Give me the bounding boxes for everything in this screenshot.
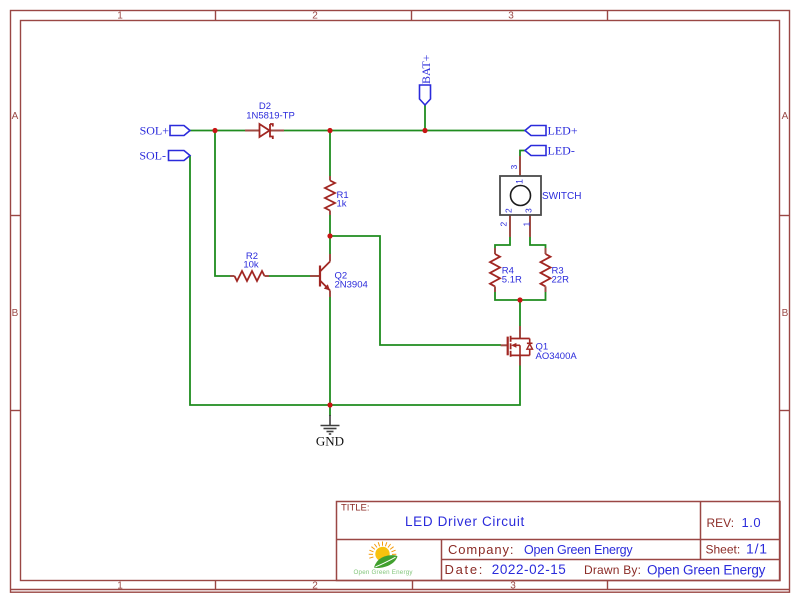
resistor R4 xyxy=(490,248,500,292)
label R4 xyxy=(502,266,522,286)
svg-text:3: 3 xyxy=(509,165,519,170)
svg-text:Open Green Energy: Open Green Energy xyxy=(524,543,633,557)
svg-text:2: 2 xyxy=(312,581,318,592)
svg-text:SWITCH: SWITCH xyxy=(542,191,581,202)
svg-text:GND: GND xyxy=(316,434,344,449)
svg-text:22R: 22R xyxy=(552,275,570,286)
svg-text:LED Driver Circuit: LED Driver Circuit xyxy=(405,514,525,529)
svg-text:1: 1 xyxy=(522,222,532,227)
svg-text:1.0: 1.0 xyxy=(742,515,762,530)
netflag LED+ xyxy=(525,124,578,138)
resistor R2 xyxy=(230,271,269,281)
resistor R3 xyxy=(541,248,551,292)
wire R1 to Q2 collector xyxy=(329,215,331,254)
svg-text:10k: 10k xyxy=(243,260,259,271)
ground xyxy=(321,415,340,434)
logo Open Green Energy xyxy=(354,542,414,576)
wire SOL+ to D2 xyxy=(190,130,245,132)
wire switch pin2 to R4 xyxy=(495,237,510,248)
resistor R1 xyxy=(325,176,335,215)
svg-text:LED-: LED- xyxy=(548,144,575,158)
svg-text:2022-02-15: 2022-02-15 xyxy=(492,562,567,577)
wire node520 to Q1 drain xyxy=(519,300,521,326)
svg-text:1N5819-TP: 1N5819-TP xyxy=(246,111,295,122)
netflag LED- xyxy=(525,144,575,158)
wire node236 to Q1 gate xyxy=(330,236,501,345)
svg-text:1/1: 1/1 xyxy=(746,541,768,557)
svg-text:1: 1 xyxy=(117,581,123,592)
wire node215 down to R2 xyxy=(215,131,230,277)
wire Q2 emitter to ground rail xyxy=(329,297,331,416)
label SWITCH xyxy=(499,165,582,227)
switch S1 xyxy=(500,156,541,237)
title texts xyxy=(341,503,768,578)
label Q2 xyxy=(335,271,368,291)
transistor Q2 xyxy=(310,254,330,297)
svg-text:A: A xyxy=(12,111,19,122)
svg-text:AO3400A: AO3400A xyxy=(536,351,578,362)
svg-text:Sheet:: Sheet: xyxy=(706,543,741,557)
netflag SOL+ xyxy=(140,124,190,138)
node D junction R1-gate xyxy=(327,233,332,238)
transistor Q1 xyxy=(501,326,533,366)
node F junction ground rail xyxy=(327,402,332,407)
svg-text:2: 2 xyxy=(312,11,318,22)
svg-text:2: 2 xyxy=(504,208,514,213)
netflag BAT+ xyxy=(419,54,433,105)
svg-text:2: 2 xyxy=(499,222,509,227)
svg-text:TITLE:: TITLE: xyxy=(341,503,370,514)
diode D2 xyxy=(245,124,284,139)
netflag SOL- xyxy=(139,149,190,163)
svg-text:2N3904: 2N3904 xyxy=(335,280,368,291)
svg-text:Open Green Energy: Open Green Energy xyxy=(354,569,414,576)
label Q1 xyxy=(536,341,578,362)
title block xyxy=(337,502,781,581)
node B junction D2-R1 xyxy=(327,128,332,133)
wire switch pin1 to R3 xyxy=(530,237,546,248)
svg-text:1: 1 xyxy=(117,11,123,22)
svg-text:A: A xyxy=(782,111,789,122)
svg-text:Company:: Company: xyxy=(448,542,514,557)
label R2 xyxy=(243,251,259,271)
svg-text:SOL-: SOL- xyxy=(139,149,166,163)
wire LED- to switch xyxy=(520,151,525,157)
wire R4 R3 to node520 xyxy=(495,291,546,300)
wire R2 to Q2 base xyxy=(269,275,310,277)
svg-text:3: 3 xyxy=(524,208,534,213)
svg-text:Date:: Date: xyxy=(445,562,485,577)
label R1 xyxy=(337,190,349,210)
node E junction R4-R3 xyxy=(517,297,522,302)
svg-text:3: 3 xyxy=(508,11,514,22)
svg-text:B: B xyxy=(12,308,19,319)
svg-text:3: 3 xyxy=(510,581,516,592)
wire BAT+ drop xyxy=(424,105,426,131)
node C junction BAT+ xyxy=(422,128,427,133)
node A junction SOL+ xyxy=(212,128,217,133)
svg-text:1: 1 xyxy=(515,179,525,184)
svg-text:Drawn By:: Drawn By: xyxy=(584,563,641,577)
wire node330 down to R1 xyxy=(329,131,331,177)
label GND xyxy=(316,434,344,449)
svg-text:LED+: LED+ xyxy=(548,124,578,138)
label D2 xyxy=(246,101,295,122)
wire SOL- ground rail xyxy=(190,156,520,406)
svg-text:5.1R: 5.1R xyxy=(502,275,522,286)
svg-text:REV:: REV: xyxy=(707,516,735,530)
svg-text:SOL+: SOL+ xyxy=(140,124,170,138)
label R3 xyxy=(552,266,570,286)
wire D2 to LED+ xyxy=(284,130,525,132)
svg-text:Open Green Energy: Open Green Energy xyxy=(647,563,766,578)
svg-text:1k: 1k xyxy=(337,199,347,210)
svg-text:B: B xyxy=(782,308,789,319)
svg-text:BAT+: BAT+ xyxy=(419,54,433,84)
